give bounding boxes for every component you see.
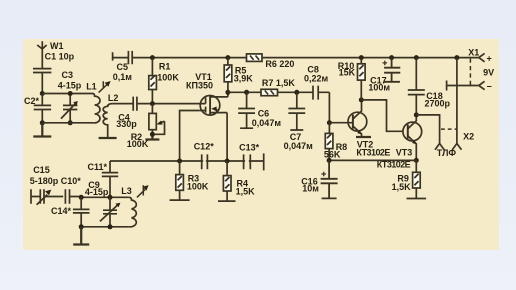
wire emitter bus: [329, 159, 416, 161]
connector X1 minus pin: [479, 81, 485, 89]
inductor L2: [99, 104, 117, 138]
svg-text:КТ3102Е: КТ3102Е: [356, 148, 390, 158]
antenna W1: [37, 41, 46, 68]
node gate junction: [150, 101, 155, 106]
node R1 top: [150, 55, 155, 60]
resistor R7: [261, 89, 278, 95]
svg-text:L1: L1: [86, 81, 97, 91]
wire tank top: [42, 93, 93, 95]
connector X1 plus pin: [479, 53, 485, 61]
capacitor C11: [102, 173, 118, 198]
capacitor C17 electrolytic: [383, 58, 401, 82]
capacitor C14: [73, 197, 90, 227]
svg-text:4-15p: 4-15p: [58, 81, 82, 91]
connector X2 pin left: [435, 144, 444, 150]
svg-text:C11*: C11*: [88, 162, 108, 172]
svg-text:C10*: C10*: [61, 176, 82, 186]
ground below C2: [33, 123, 51, 137]
wire minus rail: [447, 81, 479, 91]
wire C11 feedback bus: [110, 161, 264, 172]
resistor R5: [224, 58, 232, 93]
capacitor C7: [288, 92, 305, 130]
svg-text:100K: 100K: [187, 181, 209, 191]
node antenna/tank junction: [40, 91, 45, 96]
inductor L3: [129, 185, 149, 227]
resistor R9: [407, 160, 427, 198]
resistor R2 trimmer: [145, 104, 164, 140]
svg-text:0,22м: 0,22м: [304, 74, 329, 84]
wire top supply bus: [152, 57, 478, 59]
svg-text:15K: 15K: [339, 67, 356, 77]
svg-text:2700p: 2700p: [425, 99, 451, 109]
node tank top left: [79, 195, 84, 200]
wire VT2 base: [329, 122, 353, 124]
capacitor C8: [313, 86, 329, 123]
node C2 bottom: [40, 120, 45, 125]
capacitor C16 electrolytic: [321, 160, 338, 198]
node tank bottom right: [108, 224, 113, 229]
wire VT2 collector to VT3 base: [361, 100, 402, 131]
svg-text:100K: 100K: [157, 72, 179, 82]
svg-text:X2: X2: [463, 132, 474, 142]
resistor R10: [358, 58, 366, 100]
node C3 top: [68, 91, 73, 96]
node R4 top: [225, 159, 230, 164]
dashed X1 connector line: [469, 59, 471, 86]
svg-text:L3: L3: [121, 186, 132, 196]
svg-text:C12*: C12*: [194, 141, 215, 151]
node R2 bottom: [150, 132, 155, 137]
svg-text:W1: W1: [50, 41, 64, 51]
transistor VT2: [348, 100, 371, 137]
node C17 top: [389, 55, 394, 60]
capacitor C18: [408, 58, 425, 115]
svg-text:0,1м: 0,1м: [113, 72, 133, 82]
svg-text:VT3: VT3: [396, 148, 413, 158]
svg-text:0,047м: 0,047м: [284, 141, 314, 151]
capacitor C9 trimmer: [100, 197, 121, 227]
capacitor C1: [33, 69, 51, 94]
node X1 rail top: [454, 55, 459, 60]
node tank top right: [108, 195, 113, 200]
svg-text:C14*: C14*: [51, 206, 72, 216]
svg-text:+: +: [487, 54, 492, 64]
resistor R1: [149, 58, 157, 104]
node R5 top: [225, 55, 230, 60]
node C6 top: [244, 90, 249, 95]
svg-text:330p: 330p: [116, 119, 137, 129]
svg-text:R7 1,5K: R7 1,5K: [262, 78, 296, 88]
wire VT1 lower gate loop: [180, 111, 200, 162]
svg-text:−: −: [487, 82, 492, 92]
svg-text:R1: R1: [159, 61, 171, 71]
svg-text:0,047м: 0,047м: [252, 118, 282, 128]
wire drain bus: [228, 91, 313, 93]
wire L3 tank top: [81, 196, 129, 199]
node VT3 collector: [414, 112, 419, 117]
capacitor C5: [113, 51, 153, 64]
svg-text:56K: 56K: [324, 149, 341, 159]
capacitor C3 trimmer: [61, 94, 78, 123]
svg-text:1,5K: 1,5K: [236, 187, 256, 197]
svg-text:100K: 100K: [127, 139, 149, 149]
svg-text:C3: C3: [62, 70, 74, 80]
wire L3 tank bottom: [81, 226, 129, 228]
wire gate bus: [112, 103, 200, 105]
terminal stub right of C13: [263, 153, 265, 170]
svg-text:5-180p: 5-180p: [30, 176, 59, 186]
svg-text:4-15p: 4-15p: [85, 187, 109, 197]
svg-text:КП350: КП350: [186, 81, 213, 91]
wire X2 left leg: [416, 115, 439, 144]
transistor VT1 dual-gate MOSFET: [200, 92, 228, 161]
node VT2 collector: [359, 97, 364, 102]
dashed X2 connector line: [441, 128, 456, 130]
node tank bottom left: [79, 224, 84, 229]
svg-text:C5: C5: [117, 62, 129, 72]
inductor L1: [93, 81, 111, 123]
ground below tank: [73, 227, 89, 245]
node drain junction: [225, 90, 230, 95]
svg-text:100м: 100м: [368, 82, 390, 92]
svg-text:9V: 9V: [483, 68, 494, 78]
transistor VT3: [403, 115, 422, 160]
resistor R8: [325, 123, 333, 161]
capacitor C15 trimmer: [31, 189, 63, 205]
capacitor C12: [202, 154, 208, 169]
node VT3 emitter: [414, 158, 419, 163]
svg-text:ТЛФ: ТЛФ: [437, 148, 457, 158]
capacitor C13: [244, 154, 251, 169]
svg-text:X1: X1: [468, 48, 479, 58]
capacitor C4: [133, 97, 137, 111]
node R3 top: [177, 159, 182, 164]
node C3 bottom: [68, 120, 73, 125]
capacitor C6: [238, 92, 255, 128]
resistor R6: [247, 54, 263, 62]
svg-text:3,9K: 3,9K: [234, 73, 254, 83]
node R10 top: [359, 55, 364, 60]
node C16 top: [327, 158, 332, 163]
svg-text:C1 10p: C1 10p: [45, 52, 75, 62]
resistor R3: [170, 161, 190, 200]
svg-text:C2*: C2*: [24, 96, 40, 106]
svg-text:L2: L2: [108, 93, 119, 103]
svg-text:C15: C15: [33, 165, 50, 175]
wire tank bottom: [42, 122, 93, 124]
svg-text:R6 220: R6 220: [265, 59, 294, 69]
node C18 top: [414, 55, 419, 60]
capacitor C10: [65, 189, 81, 204]
svg-text:C13*: C13*: [239, 142, 260, 152]
capacitor C2: [34, 94, 51, 123]
node C7 top: [294, 90, 299, 95]
svg-text:10м: 10м: [302, 183, 319, 193]
wire right rail: [456, 58, 458, 144]
connector X2 pin right: [452, 144, 461, 150]
resistor R4: [218, 161, 236, 201]
svg-text:1,5K: 1,5K: [392, 182, 412, 192]
node VT2 base: [327, 120, 332, 125]
